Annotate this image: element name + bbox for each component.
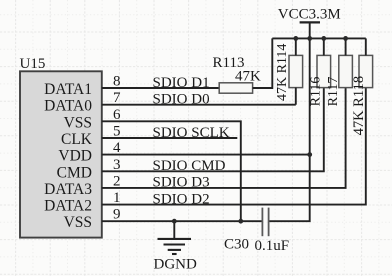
resistor R113 body — [219, 83, 252, 93]
svg-text:C30: C30 — [224, 237, 249, 253]
resistor R116 body — [317, 55, 331, 87]
svg-text:SDIO D3: SDIO D3 — [153, 175, 210, 191]
junction dot bus R116 — [321, 36, 326, 41]
resistor R114 body — [289, 55, 303, 87]
wire R114 bottom to D0 — [295, 88, 297, 105]
svg-text:DGND: DGND — [154, 257, 197, 273]
svg-text:47K R118: 47K R118 — [351, 76, 367, 135]
svg-text:0.1uF: 0.1uF — [255, 238, 290, 254]
wire R113 right to VCC bus — [253, 38, 273, 88]
wire pin8 SDIO D1 — [102, 87, 219, 89]
wire pin4 VDD — [102, 154, 310, 156]
junction dot VSS line DGND — [172, 219, 177, 224]
junction dot bus R117 — [343, 36, 348, 41]
wire R116 top — [323, 38, 325, 55]
svg-text:DATA1: DATA1 — [44, 81, 92, 98]
svg-text:CLK: CLK — [61, 131, 93, 148]
svg-text:DATA2: DATA2 — [44, 198, 92, 215]
wire pin1 SDIO D2 — [102, 88, 366, 205]
svg-text:SDIO D2: SDIO D2 — [153, 191, 210, 207]
svg-text:DATA0: DATA0 — [44, 98, 92, 115]
VCC bus wire — [272, 37, 366, 39]
wire pin6 VSS — [102, 121, 241, 221]
wire pin5 SDIO SCLK — [102, 137, 238, 139]
resistor R117 body — [339, 55, 353, 87]
wire R118 top — [365, 38, 367, 55]
svg-text:R117: R117 — [326, 77, 341, 107]
ground DGND stem — [173, 221, 175, 238]
svg-text:47K: 47K — [235, 69, 261, 85]
svg-text:SDIO D1: SDIO D1 — [153, 75, 210, 91]
wire R117 top — [345, 38, 347, 55]
wire pin7 SDIO D0 — [102, 104, 296, 106]
svg-text:SDIO D0: SDIO D0 — [153, 92, 210, 108]
wire pin9 VSS to C30 — [102, 220, 262, 222]
junction dot VDD line — [307, 152, 312, 157]
resistor R118 body — [359, 55, 373, 87]
capacitor C30 left plate — [261, 208, 263, 237]
VCC power bar symbol — [300, 21, 320, 23]
svg-text:SDIO SCLK: SDIO SCLK — [153, 125, 230, 141]
svg-text:VSS: VSS — [64, 214, 92, 231]
junction dot VSS line x241 — [238, 219, 243, 224]
svg-text:47K R114: 47K R114 — [275, 44, 290, 101]
capacitor C30 right plate — [268, 208, 270, 237]
wire pin3 SDIO CMD — [102, 88, 324, 172]
junction dot bus VCC stem — [307, 36, 312, 41]
svg-text:VDD: VDD — [58, 148, 92, 165]
wire pin2 SDIO D3 — [102, 88, 346, 188]
wire R114 top — [295, 38, 297, 55]
VCC stem — [309, 22, 311, 38]
IC U15 body — [20, 71, 102, 237]
wire VDD vertical VCC to C30 — [269, 38, 310, 221]
svg-text:SDIO CMD: SDIO CMD — [153, 158, 226, 174]
ground DGND bars — [158, 239, 192, 254]
junction dot bus R114 — [293, 36, 298, 41]
svg-text:VSS: VSS — [64, 114, 92, 131]
svg-text:CMD: CMD — [57, 164, 92, 181]
svg-text:U15: U15 — [20, 56, 46, 72]
svg-text:VCC3.3M: VCC3.3M — [278, 7, 341, 23]
svg-text:DATA3: DATA3 — [44, 181, 92, 198]
